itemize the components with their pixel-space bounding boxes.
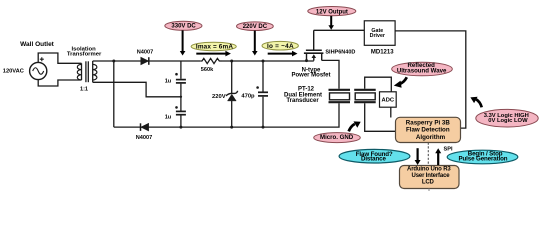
svg-text:Io = ~4A: Io = ~4A — [267, 43, 294, 50]
svg-text:SPI: SPI — [444, 147, 453, 153]
gate driver U2 box — [364, 21, 395, 46]
mosfet Q1 SIHP6N40D — [304, 30, 324, 62]
oval 12V Output — [308, 7, 356, 16]
svg-text:Arduino Uno R3: Arduino Uno R3 — [407, 167, 451, 173]
oval 330V DC — [165, 21, 202, 30]
wire transducer2 bottom to Pi — [365, 103, 397, 131]
svg-text:Power Mosfet: Power Mosfet — [291, 73, 330, 79]
svg-text:560k: 560k — [201, 67, 214, 73]
resistor R1 560k — [200, 58, 221, 63]
svg-text:330V DC: 330V DC — [171, 24, 196, 30]
svg-text:MD1213: MD1213 — [371, 49, 394, 55]
SPI down arrow — [415, 148, 421, 165]
capacitor C2 1u — [175, 106, 186, 127]
svg-text:1u: 1u — [165, 115, 172, 121]
svg-text:220V: 220V — [212, 94, 226, 100]
wire secondary top rail — [93, 60, 201, 62]
svg-text:12V Output: 12V Output — [316, 9, 348, 15]
raspberry pi box U4 — [396, 117, 461, 142]
arrow 330V — [180, 30, 186, 55]
SPI dashed line — [427, 143, 429, 166]
oval Flaw Found Distance — [339, 149, 410, 163]
svg-text:ADC: ADC — [382, 98, 395, 104]
zener D3 220V — [226, 61, 238, 127]
wire transducer2 top to ADC — [365, 77, 392, 92]
oval 3.3V logic — [476, 109, 538, 127]
transducer X1 element 2 — [354, 90, 376, 102]
wire bottom rail — [114, 103, 339, 127]
svg-text:Imax = 6mA: Imax = 6mA — [196, 44, 233, 51]
arduino box U5 — [400, 166, 460, 189]
wire gate driver to right vertical — [395, 31, 466, 128]
node dot C3-top — [262, 60, 265, 63]
wire left vertical — [113, 61, 115, 127]
diode D2 N4007 (bottom) — [141, 123, 149, 131]
wire secondary bottom to cap midpoint — [93, 82, 181, 97]
svg-text:LCD: LCD — [422, 180, 435, 186]
wire primary top — [38, 53, 81, 63]
oval Reflected Ultrasound Wave — [392, 62, 453, 76]
arrow 12V — [328, 16, 334, 30]
node dot C2-bottom — [179, 126, 182, 129]
capacitor C1 1u — [175, 61, 186, 111]
svg-text:Transformer: Transformer — [67, 51, 102, 57]
svg-text:Micro. GND: Micro. GND — [320, 134, 354, 141]
node dot zener-top — [230, 60, 233, 63]
diode D1 N4007 (top) — [141, 57, 149, 65]
svg-text:Driver: Driver — [370, 33, 385, 39]
AC source V1 (wall outlet) — [30, 57, 47, 79]
svg-text:Pulse Generation: Pulse Generation — [459, 156, 508, 163]
arrow Imax — [196, 51, 231, 57]
svg-text:1:1: 1:1 — [80, 86, 88, 92]
node dot C3-bottom — [262, 126, 265, 129]
oval Imax = 6mA — [191, 42, 236, 50]
oval Io = ~4A — [262, 41, 298, 50]
svg-text:220V DC: 220V DC — [243, 24, 268, 30]
transformer T1 — [77, 61, 97, 82]
svg-text:Distance: Distance — [361, 156, 387, 163]
wire drain to transducer — [322, 60, 339, 88]
node dot cap midpoint — [180, 96, 182, 98]
wire 12V rail to gate driver — [314, 29, 365, 31]
oval Micro. GND — [314, 133, 361, 143]
capacitor C3 470p — [256, 61, 268, 127]
svg-text:Flaw Detection: Flaw Detection — [406, 127, 450, 134]
svg-text:Algorithm: Algorithm — [416, 134, 446, 141]
arrow Io — [268, 51, 298, 57]
oval Begin Stop Pulse Generation — [447, 150, 518, 164]
svg-text:N4007: N4007 — [137, 50, 153, 56]
svg-text:SIHP6N40D: SIHP6N40D — [325, 50, 355, 56]
svg-text:470p: 470p — [241, 93, 255, 99]
svg-text:User Interface: User Interface — [412, 173, 451, 179]
wire primary bottom — [38, 80, 81, 86]
curved arrow logic — [476, 99, 482, 107]
wire stub below arduino — [428, 189, 430, 192]
svg-text:0V Logic LOW: 0V Logic LOW — [488, 118, 528, 124]
svg-text:1u: 1u — [165, 79, 172, 85]
oval 220V DC — [237, 22, 274, 31]
svg-text:Wall Outlet: Wall Outlet — [20, 41, 55, 48]
ADC box U3 — [380, 92, 397, 107]
wire ADC to Pi — [390, 107, 392, 117]
SPI up arrow — [435, 148, 441, 165]
curved arrow micro-gnd — [349, 124, 355, 131]
arrow 220V — [252, 31, 258, 56]
svg-text:120VAC: 120VAC — [3, 69, 24, 75]
node dot zener-bottom — [230, 126, 233, 129]
svg-text:Ultrasound Wave: Ultrasound Wave — [397, 67, 447, 74]
svg-text:Transducer: Transducer — [286, 98, 319, 104]
node dot secondary-top — [112, 60, 115, 63]
transducer X1 element 1 — [329, 90, 351, 102]
svg-text:N4007: N4007 — [136, 135, 152, 141]
curved arrow reflected-wave — [400, 77, 407, 84]
